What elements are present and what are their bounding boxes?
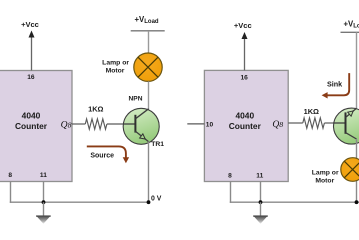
svg-text:+VLoad: +VLoad bbox=[344, 19, 359, 29]
wire pin8 down (left) bbox=[10, 182, 12, 203]
svg-text:+Vcc: +Vcc bbox=[21, 20, 39, 29]
svg-text:1KΩ: 1KΩ bbox=[88, 104, 103, 113]
wire to ground (left) bbox=[43, 202, 45, 216]
TR1 base bar bbox=[134, 115, 136, 133]
IC U2: 4040 counter box bbox=[204, 70, 288, 181]
wire resistor to base TR2 bbox=[324, 122, 333, 124]
wire Q8 to resistor R2 bbox=[288, 122, 303, 124]
junction emitter/0V (left) bbox=[147, 200, 151, 204]
svg-text:Motor: Motor bbox=[315, 178, 334, 185]
svg-text:4040: 4040 bbox=[22, 111, 41, 121]
wire emitter to 0V rail (left) bbox=[148, 142, 150, 203]
svg-text:Sink: Sink bbox=[327, 79, 342, 88]
TR2 collector lead (down) bbox=[346, 133, 357, 139]
svg-text:11: 11 bbox=[40, 172, 47, 179]
svg-text:16: 16 bbox=[27, 74, 35, 81]
wire Q8 to resistor R1 bbox=[72, 123, 85, 125]
svg-text:8: 8 bbox=[8, 172, 12, 179]
power rail +VLoad bar (left) bbox=[131, 30, 165, 32]
svg-text:Counter: Counter bbox=[15, 121, 48, 131]
current arrow Source bbox=[87, 146, 126, 158]
power rail +VLoad bar (right) bbox=[341, 31, 359, 33]
ground symbol (left) bbox=[36, 216, 51, 224]
wire pin11 down (right) bbox=[260, 182, 262, 203]
svg-text:Counter: Counter bbox=[229, 121, 262, 131]
lamp LP1 (left) bbox=[134, 53, 162, 81]
power +Vcc arrow (left) bbox=[29, 31, 35, 38]
resistor R1 1K zigzag bbox=[85, 119, 107, 129]
svg-text:Motor: Motor bbox=[106, 68, 125, 75]
resistor R2 1K zigzag bbox=[303, 118, 325, 128]
TR2 emitter arrowhead bbox=[348, 111, 354, 116]
wire pin16 to +Vcc (left) bbox=[31, 37, 33, 71]
TR2 emitter lead (up) bbox=[346, 108, 357, 117]
transistor TR2 body bbox=[334, 108, 359, 144]
svg-text:4040: 4040 bbox=[235, 111, 254, 121]
wire pin16 to +Vcc (right) bbox=[244, 38, 246, 70]
svg-text:0 V: 0 V bbox=[151, 195, 162, 202]
svg-text:NPN: NPN bbox=[129, 95, 143, 102]
wire 0V rail (left) bbox=[10, 201, 149, 203]
svg-text:Source: Source bbox=[90, 153, 114, 160]
TR1 collector lead bbox=[135, 109, 148, 119]
lamp LP2 (right) bbox=[341, 158, 359, 182]
wire +VLoad to emitter TR2 (right) bbox=[356, 32, 358, 109]
svg-text:Q8: Q8 bbox=[272, 119, 283, 130]
current arrow Sink bbox=[327, 73, 349, 95]
junction pin11/ground (right) bbox=[259, 200, 263, 204]
svg-text:+VLoad: +VLoad bbox=[135, 15, 159, 25]
svg-text:10: 10 bbox=[206, 122, 214, 129]
svg-text:1KΩ: 1KΩ bbox=[304, 107, 319, 116]
ground symbol (right) bbox=[253, 216, 268, 224]
wire pin8 down (right) bbox=[230, 182, 232, 203]
svg-text:TR1: TR1 bbox=[151, 141, 164, 148]
svg-text:8: 8 bbox=[228, 173, 232, 180]
TR2 base bar bbox=[345, 112, 347, 133]
IC U1: 4040 counter box bbox=[0, 71, 72, 182]
wire resistor to base TR1 bbox=[107, 123, 124, 125]
TR1 emitter lead bbox=[135, 131, 148, 141]
wire collector to lamp and 0V (right) bbox=[356, 139, 358, 202]
svg-text:11: 11 bbox=[256, 173, 263, 180]
wire to ground (right) bbox=[260, 202, 262, 216]
wire lamp to collector TR1 bbox=[148, 81, 150, 110]
svg-text:Lamp or: Lamp or bbox=[312, 170, 339, 177]
svg-text:16: 16 bbox=[241, 74, 249, 81]
wire 0V rail (right) bbox=[230, 201, 359, 203]
wire pin11 down (left) bbox=[43, 182, 45, 203]
TR1 base lead inside bbox=[123, 123, 134, 125]
wire pin10 stub (right) bbox=[187, 123, 204, 125]
power +Vcc arrow (right) bbox=[242, 32, 248, 39]
svg-text:Lamp or: Lamp or bbox=[102, 59, 129, 66]
junction lamp/0V (right) bbox=[355, 200, 359, 204]
TR2 base lead inside bbox=[334, 122, 345, 124]
svg-text:Q8: Q8 bbox=[61, 120, 72, 131]
transistor TR1 body bbox=[123, 108, 159, 144]
junction pin11/ground (left) bbox=[42, 200, 46, 204]
wire +VLoad bar to lamp (left) bbox=[148, 31, 150, 54]
svg-text:+Vcc: +Vcc bbox=[234, 21, 252, 30]
TR1 emitter arrowhead bbox=[140, 134, 146, 139]
